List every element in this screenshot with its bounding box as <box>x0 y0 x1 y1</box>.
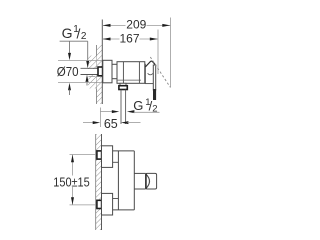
inlet pipe through wall (side view) <box>81 68 99 74</box>
svg-text:167: 167 <box>119 32 139 46</box>
lever handle (side view, pointing down) <box>153 65 156 100</box>
dimension 150±15 <box>53 155 97 205</box>
dimension 167 <box>102 30 158 75</box>
shower outlet below body (side view) <box>119 83 127 124</box>
top union nut (bottom view) <box>97 151 102 159</box>
outlet stem (bottom view) <box>134 173 145 189</box>
outlet end cap (bottom view) <box>146 173 157 189</box>
union nut at wall (side view) <box>98 67 103 76</box>
label G 1/2 (bottom, outlet thread) with leader <box>100 97 159 114</box>
wall (side view) hatched strip <box>88 20 102 105</box>
mixer body (side view) <box>117 62 145 84</box>
bottom escutcheon (bottom view) <box>102 193 113 215</box>
neck between escutcheon and body (side view) <box>112 64 117 78</box>
top escutcheon (bottom view) <box>102 146 113 168</box>
lever swing dash line <box>150 57 170 87</box>
svg-text:G: G <box>133 98 143 113</box>
svg-text:/: / <box>77 25 81 41</box>
lever dome (side view) <box>145 61 155 84</box>
wall (bottom view) hatched strip <box>96 134 102 230</box>
svg-text:150±15: 150±15 <box>53 174 90 189</box>
svg-text:2: 2 <box>81 31 87 42</box>
label G 1/2 (top-left, wall union thread) <box>60 24 96 86</box>
svg-text:65: 65 <box>104 117 118 131</box>
svg-text:G: G <box>62 25 73 41</box>
mixer body (bottom view) with necks <box>113 151 135 210</box>
dimension D70 (escutcheon diameter) <box>57 41 102 95</box>
svg-text:209: 209 <box>126 18 146 32</box>
bottom union nut (bottom view) <box>97 200 102 208</box>
svg-text:Ø70: Ø70 <box>57 64 79 79</box>
dimension 65 <box>83 108 141 131</box>
escutcheon (side view) <box>103 60 112 83</box>
dimension 209 <box>102 18 170 88</box>
